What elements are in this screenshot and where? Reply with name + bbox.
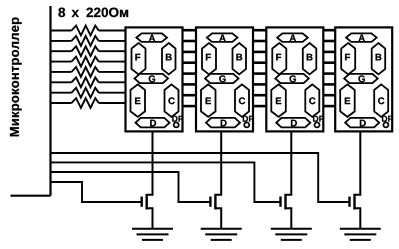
wire: MCU segment pin 8	[51, 102, 72, 104]
wire: bus rung 3 between HG2 and HG3	[252, 51, 267, 54]
wire: HG3 common cathode to VT3 drain	[286, 131, 292, 194]
label DP of HG2	[243, 116, 254, 122]
segment C of HG3	[305, 84, 319, 117]
wire: bus rung 7 between HG1 and HG2	[182, 94, 198, 97]
resistor R2 220Ом	[72, 36, 99, 46]
VT4 source lead	[355, 208, 361, 228]
wire: bus rung 4 between HG3 and HG4	[322, 61, 336, 64]
wire: resistor R5 to display HG1 pin	[99, 71, 126, 73]
segment A of HG4	[346, 33, 377, 42]
segment B of HG1	[162, 43, 176, 74]
wire: bus rung 1 between HG1 and HG2	[182, 29, 198, 32]
wire: HG2 common cathode to VT2 drain	[215, 131, 221, 194]
VT2 channel	[214, 194, 216, 210]
wire: resistor R7 to display HG1 pin	[99, 92, 126, 94]
wire: MCU segment pin 3	[51, 50, 72, 52]
wire: MCU digit control 1 to transistor VT4 gate	[51, 153, 349, 202]
segment D of HG3	[276, 118, 310, 128]
display HG1 body	[126, 27, 183, 131]
VT3 channel	[284, 194, 286, 210]
wire: MCU segment pin 2	[51, 40, 72, 42]
resistor R7 220Ом	[72, 88, 99, 98]
wire: resistor R1 to display HG1 pin	[99, 30, 126, 32]
segment G of HG3	[275, 74, 309, 83]
segment G of HG4	[344, 74, 378, 83]
resistor R5 220Ом	[72, 67, 99, 77]
wire: bus rung 6 between HG3 and HG4	[322, 83, 336, 86]
label A of HG1	[149, 35, 155, 42]
segment A of HG3	[277, 33, 308, 42]
resistor R4 220Ом	[72, 57, 99, 67]
transistor VT2 (n-channel MOSFET)	[210, 194, 221, 229]
wire: bus rung 5 between HG2 and HG3	[252, 72, 267, 75]
segment G of HG2	[205, 74, 239, 83]
segment E of HG3	[271, 84, 286, 117]
label A of HG2	[219, 35, 225, 42]
label G of HG2	[219, 75, 225, 82]
wire: bus rung 8 between HG3 and HG4	[322, 105, 336, 108]
wire: MCU segment pin 1	[51, 30, 72, 32]
label E of HG2	[206, 98, 211, 105]
wire: bus rung 7 between HG3 and HG4	[322, 94, 336, 97]
VT3 source lead	[286, 208, 292, 228]
wire: MCU segment pin 4	[51, 61, 72, 63]
label C of HG2	[239, 97, 245, 104]
wire: MCU digit control 2 to transistor VT3 gate	[51, 162, 280, 202]
transistor VT1 (n-channel MOSFET)	[142, 194, 153, 229]
wire: bus rung 2 between HG1 and HG2	[182, 40, 198, 43]
label D of HG1	[150, 120, 156, 127]
VT1 source lead	[147, 208, 153, 228]
7-segment display HG4	[335, 27, 393, 131]
label F of HG4	[345, 54, 350, 61]
7-segment display HG1	[126, 27, 184, 131]
wire: resistor R6 to display HG1 pin	[99, 81, 126, 83]
label F of HG3	[276, 54, 281, 61]
segment B of HG3	[303, 43, 317, 74]
decimal point DP of HG3	[315, 122, 320, 127]
label DP of HG1	[172, 116, 183, 122]
label G of HG3	[290, 75, 296, 82]
label D of HG2	[221, 120, 227, 127]
resistor R6 220Ом	[72, 77, 99, 87]
wire: resistor R8 to display HG1 pin	[99, 102, 126, 104]
wire: bus rung 2 between HG2 and HG3	[252, 40, 267, 43]
resistor R8 220Ом	[72, 98, 99, 108]
label A of HG3	[290, 35, 296, 42]
VT4 channel	[353, 194, 355, 210]
VT3 gate electrode	[279, 197, 281, 207]
microcontroller box bottom edge	[11, 195, 51, 197]
wire: bus rung 8 between HG1 and HG2	[182, 105, 198, 108]
segment F of HG2	[202, 43, 216, 74]
segment F of HG1	[132, 43, 146, 74]
label E of HG4	[345, 98, 350, 105]
segment C of HG2	[235, 84, 249, 117]
segment F of HG3	[272, 43, 286, 74]
segment D of HG2	[206, 118, 240, 128]
ground symbol at VT4 source	[340, 229, 381, 240]
label F of HG1	[135, 54, 140, 61]
transistor VT3 (n-channel MOSFET)	[281, 194, 292, 229]
decimal point DP of HG2	[244, 122, 249, 127]
wire: MCU digit control 3 to transistor VT2 gate	[51, 172, 210, 202]
wire: resistor R2 to display HG1 pin	[99, 40, 126, 42]
wire: MCU segment pin 6	[51, 81, 72, 83]
wire: bus rung 5 between HG1 and HG2	[182, 72, 198, 75]
segment F of HG4	[341, 43, 355, 74]
label C of HG3	[309, 97, 315, 104]
label G of HG1	[149, 75, 155, 82]
segment A of HG2	[207, 33, 238, 42]
label B of HG3	[307, 54, 313, 61]
segment G of HG1	[135, 74, 169, 83]
label C of HG1	[168, 97, 174, 104]
label: Микроконтроллер (vertical)	[10, 18, 22, 137]
label E of HG1	[135, 98, 140, 105]
label DP of HG4	[382, 116, 393, 122]
wire: bus rung 8 between HG2 and HG3	[252, 105, 267, 108]
wire: HG1 common cathode to VT1 drain	[147, 131, 153, 194]
segment B of HG4	[372, 43, 386, 74]
display HG2 body	[196, 27, 253, 131]
wire: MCU digit control 4 to transistor VT1 gate	[51, 182, 141, 202]
segment D of HG4	[345, 118, 379, 128]
segment A of HG1	[136, 33, 167, 42]
resistor R1 220Ом	[72, 26, 99, 36]
label C of HG4	[378, 97, 384, 104]
wire: resistor R4 to display HG1 pin	[99, 61, 126, 63]
wire: bus rung 6 between HG2 and HG3	[252, 83, 267, 86]
segment D of HG1	[136, 118, 170, 128]
label E of HG3	[276, 98, 281, 105]
VT4 gate electrode	[348, 197, 350, 207]
label G of HG4	[358, 75, 364, 82]
label F of HG2	[206, 54, 211, 61]
ground symbol at VT3 source	[271, 229, 312, 240]
ground symbol at VT2 source	[201, 229, 242, 240]
label B of HG1	[166, 54, 172, 61]
wire: bus rung 1 between HG3 and HG4	[322, 29, 336, 32]
7-segment display HG3	[266, 27, 324, 131]
wire: resistor R3 to display HG1 pin	[99, 50, 126, 52]
label DP of HG3	[313, 116, 324, 122]
7-segment display HG2	[196, 27, 254, 131]
segment B of HG2	[233, 43, 247, 74]
label B of HG2	[236, 54, 242, 61]
wire: bus rung 6 between HG1 and HG2	[182, 83, 198, 86]
wire: bus rung 1 between HG2 and HG3	[252, 29, 267, 32]
segment E of HG4	[340, 84, 355, 117]
microcontroller box right edge	[49, 6, 51, 196]
segment E of HG1	[131, 84, 146, 117]
decimal point DP of HG4	[383, 122, 388, 127]
wire: MCU segment pin 7	[51, 92, 72, 94]
label: 8 х 220Ом	[58, 8, 65, 18]
wire: MCU segment pin 5	[51, 71, 72, 73]
wire: bus rung 3 between HG1 and HG2	[182, 51, 198, 54]
segment E of HG2	[201, 84, 216, 117]
VT1 channel	[145, 194, 147, 210]
wire: bus rung 5 between HG3 and HG4	[322, 72, 336, 75]
VT2 gate electrode	[209, 197, 211, 207]
resistor R3 220Ом	[72, 46, 99, 56]
VT1 gate electrode	[140, 197, 142, 207]
VT2 source lead	[215, 208, 221, 228]
label B of HG4	[376, 54, 382, 61]
wire: bus rung 4 between HG2 and HG3	[252, 61, 267, 64]
display HG3 body	[266, 27, 323, 131]
label D of HG4	[360, 120, 366, 127]
ground symbol at VT1 source	[132, 229, 173, 240]
label D of HG3	[291, 120, 297, 127]
wire: bus rung 4 between HG1 and HG2	[182, 61, 198, 64]
wire: HG4 common cathode to VT4 drain	[355, 131, 361, 194]
wire: bus rung 2 between HG3 and HG4	[322, 40, 336, 43]
wire: bus rung 3 between HG3 and HG4	[322, 51, 336, 54]
display HG4 body	[335, 27, 392, 131]
segment C of HG1	[165, 84, 179, 117]
wire: bus rung 7 between HG2 and HG3	[252, 94, 267, 97]
decimal point DP of HG1	[174, 122, 179, 127]
label A of HG4	[359, 35, 365, 42]
segment C of HG4	[374, 84, 388, 117]
transistor VT4 (n-channel MOSFET)	[350, 194, 361, 229]
